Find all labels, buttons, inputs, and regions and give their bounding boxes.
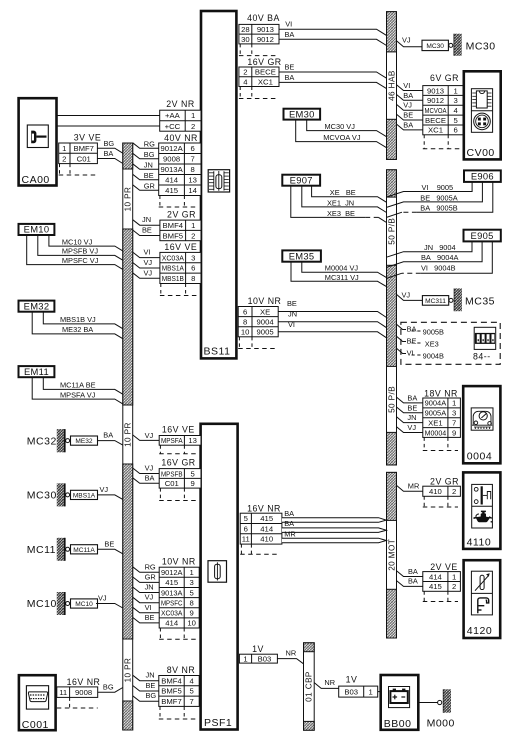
svg-text:BMF7: BMF7 [161,697,182,706]
svg-text:VJ: VJ [98,594,107,603]
connector C001 box [19,675,56,730]
wire MC11A BE from EM11 to bar 10PR [43,377,123,394]
dashed continuation 8V NR PSF1 [159,707,198,720]
svg-text:EM30: EM30 [289,108,315,119]
svg-text:6: 6 [191,264,195,273]
svg-text:GR: GR [144,181,155,190]
wire MPSFC VJ from EM10 to bar 10PR [27,235,123,269]
control unit BS11 box [201,11,236,358]
wire VI BS11 9005 to bar 50PB [278,332,386,338]
svg-text:415: 415 [260,514,273,523]
node box E907 [282,174,320,185]
svg-text:1V: 1V [346,675,358,685]
wire JN bar 10PR to PSF1 8V NR row [133,675,159,681]
svg-text:415: 415 [165,578,178,587]
svg-text:JN: JN [144,160,153,169]
coolant temperature module 4120 box [464,560,501,638]
svg-text:BA: BA [284,509,294,518]
4120 thermistor icon [471,571,492,615]
svg-text:ME32 BA: ME32 BA [62,325,93,334]
svg-text:BE: BE [145,613,155,622]
wire VJ bar 46HAB to CV00 110.2 [397,104,423,110]
CA00 key icon [27,125,48,148]
svg-text:XC1: XC1 [428,126,443,135]
svg-text:MPSFC VJ: MPSFC VJ [62,256,99,265]
CV00 chip and connector icon [471,89,492,133]
svg-text:MC11: MC11 [27,544,56,556]
wire BE MC11A to bar 10PR [98,549,123,554]
svg-text:16V VE: 16V VE [162,425,195,435]
svg-text:18V NR: 18V NR [424,389,458,399]
svg-text:0004: 0004 [467,451,492,463]
connector table 2V GR (BMF4,BMF5) [160,220,201,241]
svg-text:GR: GR [145,572,156,581]
svg-text:415: 415 [429,582,442,591]
svg-text:BE: BE [403,111,413,120]
4120 coolant level icon [478,598,489,613]
wire JN 9004 from E905 to bar 50PB [387,241,473,257]
svg-text:C01: C01 [77,154,91,163]
svg-text:46 HAB: 46 HAB [387,70,396,101]
dashed continuation 3V VE [59,164,98,175]
wire VI 9005 from E906 to bar 50PB [387,182,473,197]
svg-text:VI: VI [288,320,295,329]
svg-text:E906: E906 [471,171,494,182]
svg-text:BA: BA [145,474,155,483]
svg-text:4: 4 [453,106,458,115]
wire VJ bar 50PB to 0004 row [397,427,423,433]
svg-text:JN: JN [288,310,297,319]
connector table 16V GR (MPSFB 5, C01 9) [159,469,201,489]
svg-text:MC311: MC311 [425,298,446,305]
wire MBS1B VJ from EM32 to bar 10PR [43,312,123,329]
svg-text:VJ: VJ [145,593,154,602]
svg-text:9004: 9004 [257,318,275,327]
svg-text:MC30 VJ: MC30 VJ [325,122,356,131]
wire BA 9005B from E906 to bar 50PB (partly dashed) [417,182,493,212]
wire BE BS11 BECE to bar 46HAB [279,72,387,78]
wire BE bar 10PR to PSF1 8V NR row [133,686,159,692]
connector table 16V VE (XC03A,MBS1A,MBS1B) [160,252,201,283]
wire BA bar 20MOT to 4120 pin1 [397,571,423,577]
wire VJ bar 10PR to PSF1 MPSFB [133,468,160,474]
svg-text:E905: E905 [471,230,494,241]
svg-text:9013: 9013 [427,86,444,95]
connector table 1V (B03 1) [339,686,378,697]
ground MC30 hatched wall [57,483,65,506]
svg-text:414: 414 [260,524,274,533]
ground MC10 terminal circle [66,602,70,606]
svg-text:BA 9004A: BA 9004A [421,253,458,262]
wire XE1 JN from E907 to bar 50PB [302,186,387,213]
dashed continuation 16V GR PSF1 [159,488,198,500]
svg-text:1: 1 [452,399,456,408]
svg-text:50 P/B: 50 P/B [387,386,396,413]
svg-text:410: 410 [429,487,442,496]
svg-text:BMF5: BMF5 [161,687,182,696]
wire GR bar 10PR to PSF1 10V NR row [133,577,160,583]
wire RG bar 10PR to PSF1 10V NR row [133,567,160,573]
svg-text:MC30: MC30 [426,43,444,50]
0004 gauge icon [471,408,493,430]
svg-text:BA: BA [103,431,113,440]
svg-text:VI: VI [145,603,152,612]
svg-text:MC35: MC35 [465,296,495,308]
wire JN bar 50PB to 0004 row [397,417,423,423]
wire M0004 VJ from EM35 to bar 50PB [302,262,387,278]
svg-text:8: 8 [191,165,195,174]
svg-text:414: 414 [165,619,179,628]
wire VJ bar 50PB to MC311/MC35 [397,294,423,300]
wire MR bar 20MOT to 4110 pin2 [397,485,423,491]
BS11 fuse/relay icon [208,170,229,192]
svg-text:30: 30 [241,35,250,44]
svg-text:9: 9 [190,609,194,618]
svg-text:VI 9004B: VI 9004B [421,264,456,273]
connector table 2V NR (+AA/+CC pins 1,2) [160,110,201,131]
svg-text:BMF5: BMF5 [163,231,184,240]
svg-text:BE: BE [146,681,156,690]
connector table 40V BA (28 9013 / 30 9012) [239,24,279,44]
svg-text:VJ: VJ [145,431,154,440]
wire BA BS11 XC1 to bar 46HAB [279,82,387,88]
svg-text:BG: BG [144,150,155,159]
svg-text:MPSFB: MPSFB [161,469,183,478]
svg-text:BE 9005A: BE 9005A [420,193,457,202]
svg-text:1: 1 [191,111,195,120]
option dashed box (variant wiring) [401,322,500,364]
svg-text:9013A: 9013A [161,165,184,174]
svg-text:BMF7: BMF7 [73,144,94,153]
svg-text:6V GR: 6V GR [430,73,459,83]
svg-text:9: 9 [452,428,456,437]
wire JN bar 10PR to 2V GR row [133,220,160,226]
svg-text:BECE: BECE [425,116,446,125]
svg-text:2V NR: 2V NR [166,99,194,109]
svg-text:5: 5 [453,116,457,125]
connector table 10V NR (6 XE / 8 9004 / 10 9005) [238,307,278,337]
svg-text:XE3: XE3 [425,339,439,348]
dashed continuation 16V VE [160,284,197,296]
svg-text:M000: M000 [427,718,455,730]
svg-text:10V NR: 10V NR [248,296,282,306]
wire XE3 BE from E907 to bar 50PB (partly dashed) [291,186,365,218]
svg-text:RG: RG [144,139,155,148]
svg-text:M0004 VJ: M0004 VJ [325,264,359,273]
svg-text:410: 410 [260,535,273,544]
svg-text:16V NR: 16V NR [67,677,101,687]
svg-text:XC03A: XC03A [162,253,185,262]
svg-text:BA: BA [407,324,417,333]
instrument cluster 0004 box [463,386,500,463]
ground MC10 wire box MC10 [71,599,98,608]
ground MC30 terminal circle [66,493,70,497]
svg-text:XE: XE [260,307,270,316]
svg-text:VJ: VJ [144,258,153,267]
wire VI bar 46HAB to CV00 90.5 [397,85,423,91]
svg-text:1: 1 [452,572,456,581]
svg-text:BE: BE [407,336,417,345]
svg-text:10 PR: 10 PR [124,187,133,212]
ground MC10 hatched wall [57,592,65,615]
dashed continuation 16V VE PSF1 [159,445,198,454]
PSF1 fuse icon [208,561,227,583]
svg-text:9013: 9013 [257,25,274,34]
svg-text:9013A: 9013A [161,588,183,597]
svg-text:VJ: VJ [402,291,411,300]
svg-text:16V NR: 16V NR [247,504,281,514]
svg-text:6: 6 [243,307,247,316]
node box EM32 [19,300,55,311]
svg-text:JN: JN [407,413,416,422]
svg-text:5: 5 [190,687,194,696]
svg-text:XC1: XC1 [258,77,273,86]
svg-text:E907: E907 [290,174,313,185]
wire BG CA00 BMF7 to bar 10PR [97,148,122,153]
wire VI bar 10PR to PSF1 10V NR row [133,607,160,613]
dashed continuation 2V VE 4120 [423,591,458,601]
wire +CC CA00 to BS11 pin2 [57,125,160,127]
ground MC30 (top right) wire box [422,40,448,50]
svg-text:4: 4 [243,77,248,86]
svg-text:1: 1 [191,221,195,230]
svg-text:MBS1B VJ: MBS1B VJ [60,315,96,324]
ground M000 terminal circle [438,700,442,704]
svg-text:BA 9005B: BA 9005B [420,204,457,213]
svg-text:3: 3 [190,578,194,587]
svg-text:7: 7 [452,418,456,427]
wire BE bar 10PR to 40V NR row [133,174,159,180]
option stub BE - XE3 [397,336,439,348]
interconnect bar 46 HAB [387,12,397,160]
svg-text:VJ: VJ [403,101,412,110]
ground MC35 wire box MC311 [422,296,448,306]
svg-text:BE: BE [287,299,297,308]
svg-text:BE: BE [104,539,114,548]
svg-text:1: 1 [62,144,66,153]
svg-text:2V GR: 2V GR [430,477,459,487]
svg-text:414: 414 [429,572,443,581]
svg-text:NR: NR [324,678,335,687]
svg-text:8V NR: 8V NR [167,665,195,675]
thick wire 410 PSF1 to bar 20MOT [282,538,386,543]
svg-text:2: 2 [62,154,66,163]
node box E905 [464,230,501,242]
svg-text:3: 3 [191,253,195,262]
svg-text:VJ: VJ [144,268,153,277]
svg-text:14: 14 [188,186,197,195]
svg-text:MPSFB VJ: MPSFB VJ [62,247,98,256]
svg-text:8: 8 [190,599,194,608]
svg-text:BS11: BS11 [204,346,231,358]
dashed continuation 10V NR PSF1 [159,628,198,639]
svg-text:MCVOA VJ: MCVOA VJ [323,133,361,142]
thick wire 414 PSF1 to bar 20MOT [282,528,386,533]
svg-text:NR: NR [286,649,297,658]
connector table 16V NR (11 9008) [57,687,98,698]
svg-text:9012: 9012 [257,35,274,44]
wire BA 9004A from E905 to bar 50PB [387,241,483,267]
wire JN BS11 9004 to bar 50PB [278,322,386,328]
svg-text:BMF4: BMF4 [161,676,182,685]
svg-text:50 P/B: 50 P/B [387,218,396,245]
dashed continuation 2V GR 4110 [423,496,458,507]
wire MPSFB VJ from EM10 to bar 10PR [38,235,123,260]
wire B03 table to BB00 [378,691,381,693]
svg-text:BA: BA [408,577,418,586]
interconnect bar 50 P/B [387,170,397,465]
svg-text:XE1: XE1 [428,418,443,427]
svg-text:9012: 9012 [427,96,444,105]
svg-text:MC11A: MC11A [73,547,95,554]
dashed continuation 40V BA [239,44,277,56]
ground M000 hatched wall [444,689,451,712]
dashed continuation 16V GR [239,87,277,99]
thick wire 415 PSF1 to bar 20MOT [282,518,386,523]
connector table 1V (1 B03) [239,654,277,663]
option stub BA - 9005B [397,324,445,336]
wire XE BE from E907 to bar 50PB [312,186,387,203]
wire BG bar 10PR to 40V NR row [133,153,159,159]
svg-text:10V NR: 10V NR [162,556,196,566]
svg-text:MC30: MC30 [27,490,57,502]
svg-text:BA: BA [407,393,417,402]
svg-text:2: 2 [452,582,456,591]
wire GR bar 10PR to 40V NR row [133,185,159,191]
svg-text:4: 4 [190,676,195,685]
svg-text:4110: 4110 [467,537,492,549]
svg-text:BG: BG [103,683,114,692]
ground MC11 wire box MC11A [71,545,98,554]
connector table 16V GR (2 BECE / 4 XC1) [239,67,279,87]
svg-text:415: 415 [165,186,178,195]
wire BE bar 10PR to PSF1 10V NR row [133,617,160,623]
svg-text:MBS1A: MBS1A [73,492,96,499]
svg-text:MPSFA VJ: MPSFA VJ [60,390,96,399]
wire BA BS11 pin30 to bar 46HAB [279,39,387,45]
4110 pressure switch icon [472,484,493,528]
svg-text:9: 9 [191,479,195,488]
oil pressure/level module 4110 box [463,472,500,549]
svg-text:8: 8 [191,274,195,283]
svg-text:BG: BG [146,691,157,700]
svg-text:MC30: MC30 [466,40,496,52]
svg-text:XE1 JN: XE1 JN [327,199,354,208]
svg-text:VI: VI [285,20,292,29]
svg-text:MBS1B: MBS1B [162,274,184,283]
svg-text:+CC: +CC [165,122,181,131]
wire BG C001 9008 to bar 10PR (kinks up) [98,688,123,693]
svg-text:JN: JN [142,215,151,224]
svg-text:1V: 1V [252,644,264,654]
svg-text:VJ: VJ [402,36,411,45]
svg-text:EM10: EM10 [24,224,50,235]
node box EM11 [19,366,55,377]
4110 oil can icon [473,511,492,523]
svg-text:84--: 84-- [473,352,491,362]
wire JN bar 10PR to 40V NR row [133,164,159,170]
ground MC11 hatched wall [57,538,65,561]
wire BA ME32 to bar 10PR [98,441,123,446]
wire MC311 VJ from EM35 to bar 50PB [291,262,387,287]
node box E906 [464,170,501,182]
svg-text:9012A: 9012A [161,568,183,577]
wire VJ bar 10PR to PSF1 10V NR row [133,597,160,603]
wire ME32 BA from EM32 to bar 10PR [32,312,123,339]
connector table 6V GR (9013..XC1) [423,86,463,135]
svg-text:VI: VI [144,248,151,257]
wire VJ MBS1A to bar 10PR [98,495,123,500]
svg-text:BA: BA [285,73,295,82]
ground MC30 terminal circle [449,43,453,47]
fuse box PSF1 box [201,424,238,730]
svg-text:10 PR: 10 PR [124,422,133,447]
svg-text:9004B: 9004B [423,351,444,360]
svg-text:28: 28 [241,25,250,34]
connector table 10V NR (9012A..414) [159,567,199,628]
svg-text:1: 1 [190,568,194,577]
dashed continuation 6V GR [423,135,461,149]
connector table 40V NR (9012A..415) [159,143,201,196]
svg-text:MC10: MC10 [75,601,93,608]
wire VJ bar 10PR to 16V VE row [133,263,160,269]
wire NR PSF1 B03 to bar 01CBP [277,659,303,664]
svg-text:2: 2 [191,122,195,131]
wire BA bar 46HAB to CV00 129.9 [397,124,423,130]
svg-text:VJ: VJ [145,463,154,472]
svg-text:6: 6 [191,144,195,153]
wire BE 9005A from E906 to bar 50PB [387,182,483,208]
svg-text:VI: VI [407,348,414,357]
dashed continuation 16V NR C001 [57,697,98,708]
C001 connector icon [26,686,48,709]
wire MCVOA VJ from EM30 to bar 46HAB [296,120,387,148]
wire BE BS11 XE to bar 50PB [278,312,386,318]
svg-text:MC11A BE: MC11A BE [60,381,96,390]
svg-text:C001: C001 [22,719,49,731]
svg-text:11: 11 [59,688,67,697]
wire VJ bar 10PR to PSF1 MPSFA [133,435,160,441]
wire VJ bar 46HAB to MC30 ground [397,41,423,47]
wire VJ MC10 to bar 10PR [96,604,123,609]
svg-text:2V GR: 2V GR [167,210,196,220]
svg-text:6: 6 [244,524,248,533]
svg-text:10 PR: 10 PR [124,658,133,683]
svg-text:13: 13 [188,436,197,445]
svg-text:MR: MR [284,529,296,538]
connector table 3V VE (BMF7,C01) [59,143,98,164]
ground MC35 hatched wall [455,288,462,311]
svg-text:XC03A: XC03A [161,609,183,618]
svg-text:9008: 9008 [163,155,180,164]
svg-text:B03: B03 [344,687,358,696]
svg-text:EM32: EM32 [24,300,50,311]
connector table 8V NR (BMF4,BMF5,BMF7) [159,676,199,707]
svg-text:01 CBP: 01 CBP [305,671,314,702]
svg-text:BE: BE [144,171,154,180]
node box EM35 [282,250,321,261]
svg-text:JN: JN [146,671,155,680]
svg-text:10: 10 [241,328,250,337]
svg-text:BE: BE [407,403,417,412]
svg-text:9008: 9008 [75,688,92,697]
svg-text:5: 5 [244,514,248,523]
interconnect bar 10 PR (x122.8-132.7) [123,143,133,730]
svg-text:7: 7 [191,155,195,164]
ground MC35 terminal circle [449,298,453,302]
svg-text:BA: BA [104,149,114,158]
svg-text:9004A: 9004A [425,399,447,408]
